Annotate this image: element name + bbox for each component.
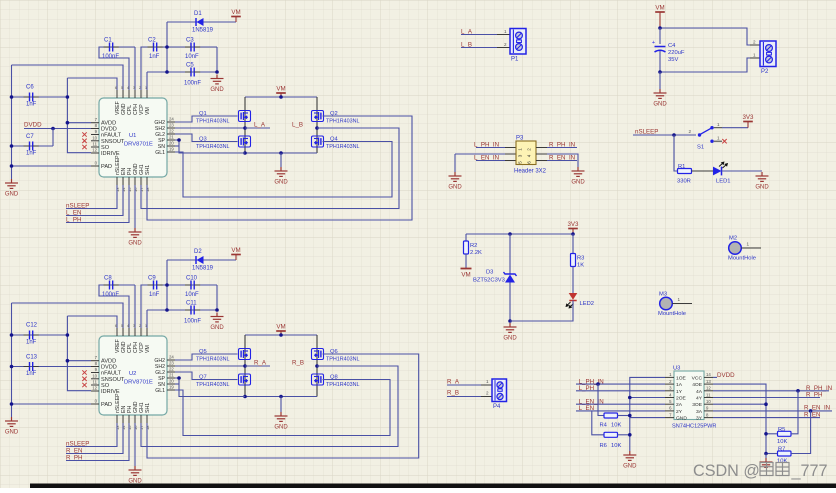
wire 3V3 to zener D3 — [509, 234, 511, 274]
power VM at diode — [235, 255, 237, 260]
ground left rail (U1 block) — [5, 179, 18, 188]
svg-text:2A: 2A — [676, 402, 683, 408]
wire U3 2OE to GND rail — [630, 397, 665, 399]
pin 13 4OE of U3 — [704, 383, 713, 385]
svg-text:22: 22 — [169, 129, 174, 134]
wire U3 3Y to R_EN — [713, 417, 820, 419]
pin VM top of U2 — [146, 328, 148, 336]
svg-text:VM: VM — [276, 86, 285, 93]
resistor R4 10K — [604, 413, 618, 418]
bottom black bar — [30, 484, 836, 489]
svg-text:nFAULT: nFAULT — [101, 371, 122, 377]
svg-text:100nF: 100nF — [102, 54, 119, 60]
wire L_EN pulldown to R6 — [592, 411, 604, 435]
power VM at H-bridge — [280, 94, 282, 98]
svg-text:R_B: R_B — [292, 360, 304, 367]
wire PAD pin — [12, 165, 92, 167]
net label L_A — [243, 126, 247, 130]
pin 22 GL2 of U2 — [167, 371, 175, 373]
svg-text:LED2: LED2 — [580, 301, 595, 307]
svg-text:R2: R2 — [470, 243, 477, 249]
wire U3 4Y to R_PH — [713, 397, 820, 399]
pin VREF top of U1 — [116, 90, 118, 98]
wire R_A to P4 pin 1 — [447, 384, 481, 386]
wire U3 4A to R_PH_IN — [713, 390, 829, 392]
svg-text:1nF: 1nF — [26, 102, 37, 108]
resistor R7 10K — [766, 453, 778, 455]
wire SP SN to bottom rail — [175, 140, 245, 153]
power VM below R2 — [461, 268, 472, 270]
pin 11 4Y of U3 — [704, 397, 713, 399]
svg-text:DVDD: DVDD — [24, 122, 42, 129]
svg-text:10: 10 — [92, 135, 97, 140]
pin 7 GND of U3 — [665, 417, 674, 419]
pin SH1 bottom of U2 — [146, 415, 148, 423]
wire left GND rail — [11, 303, 13, 417]
svg-text:TPH1R403NL: TPH1R403NL — [326, 357, 360, 363]
pin 20 SN of U2 — [167, 383, 175, 385]
wire VM to P2 pin 2 — [660, 28, 750, 45]
svg-text:13: 13 — [706, 379, 711, 384]
pin CPL top of U1 — [128, 90, 130, 98]
svg-text:1: 1 — [504, 29, 507, 34]
svg-text:3Y: 3Y — [696, 416, 703, 422]
svg-text:R_A: R_A — [254, 360, 267, 367]
svg-text:100nF: 100nF — [102, 292, 119, 298]
svg-text:TPH1R403NL: TPH1R403NL — [196, 382, 230, 388]
svg-text:12: 12 — [92, 148, 97, 153]
svg-text:Header 3X2: Header 3X2 — [514, 169, 547, 175]
wire nSLEEP — [66, 423, 117, 447]
connector P2 screw terminal — [760, 41, 776, 67]
pin GND bottom of U2 — [134, 415, 136, 423]
svg-text:1nF: 1nF — [26, 371, 37, 377]
svg-text:SH1: SH1 — [145, 165, 151, 175]
resistor R1 330R — [678, 169, 692, 174]
wire CPH riser — [134, 285, 136, 328]
pin 8 DVDD of U2 — [91, 366, 99, 368]
svg-text:TPH1R403NL: TPH1R403NL — [326, 382, 360, 388]
wire H-bridge right channel — [316, 97, 318, 153]
svg-text:4OE: 4OE — [692, 382, 703, 388]
svg-text:DRV8701E: DRV8701E — [124, 380, 153, 386]
svg-text:1: 1 — [717, 122, 720, 127]
svg-text:1nF: 1nF — [26, 340, 37, 346]
wire GL2 to Q3 gate — [175, 134, 238, 142]
ground C4 — [659, 72, 661, 89]
wire 3V3 rail to R2 — [466, 233, 573, 235]
LED LED1 — [713, 167, 722, 176]
svg-text:GL1: GL1 — [155, 150, 165, 156]
svg-text:C5: C5 — [186, 63, 194, 69]
svg-text:22: 22 — [169, 367, 174, 372]
ground P3 left — [449, 172, 462, 181]
pin 1 1OE of U3 — [665, 376, 674, 378]
svg-text:GND: GND — [503, 336, 517, 342]
wire P3 pin 4 to GND right — [536, 153, 547, 155]
power VM at diode — [235, 17, 237, 22]
wire L_PH_IN to U3 1A — [576, 383, 665, 385]
svg-text:3: 3 — [518, 154, 523, 157]
svg-text:BZT52C3V3: BZT52C3V3 — [473, 278, 505, 284]
svg-text:12: 12 — [706, 386, 711, 391]
transistor Q1 TPH1R403NL — [239, 111, 251, 122]
wire charge pump node — [166, 22, 168, 72]
wire nSLEEP — [66, 185, 117, 209]
svg-text:M2: M2 — [729, 236, 737, 242]
pin 19 GL1 of U1 — [167, 151, 175, 153]
svg-text:GND: GND — [676, 416, 687, 422]
svg-text:1: 1 — [518, 148, 523, 151]
ground left rail (U2 block) — [5, 417, 18, 426]
svg-text:C12: C12 — [26, 323, 38, 329]
capacitor C11 — [147, 309, 217, 311]
svg-text:1: 1 — [717, 136, 720, 141]
svg-text:10: 10 — [92, 373, 97, 378]
wire GL1 to Q4 gate — [175, 142, 392, 198]
svg-text:2: 2 — [527, 148, 532, 151]
ground H-bridge — [280, 397, 282, 413]
wire L_PH to U3 1Y — [576, 390, 665, 392]
wire L_PH — [66, 185, 129, 223]
wire L_A to P1 pin 1 — [461, 34, 497, 36]
ground LED1 — [756, 172, 769, 181]
wire GND node to P2 pin 1 — [660, 58, 750, 72]
wire H-bridge left channel — [244, 335, 246, 397]
wire AVDD vertical — [67, 316, 91, 391]
pin GH1 bottom of U2 — [140, 415, 142, 423]
wire VM pin riser — [146, 310, 148, 328]
svg-text:R5: R5 — [778, 427, 785, 433]
svg-text:P2: P2 — [761, 69, 769, 75]
no-ERC marks on U2 left pins — [82, 370, 86, 374]
svg-text:GL1: GL1 — [155, 388, 165, 394]
wire GL2 to Q7 gate — [175, 372, 238, 380]
pin 6 2Y of U3 — [665, 410, 674, 412]
no-ERC marks on U1 left pins — [82, 132, 86, 136]
svg-text:GND: GND — [5, 192, 19, 198]
svg-text:1nF: 1nF — [149, 292, 160, 298]
pin PH bottom of U1 — [128, 177, 130, 185]
capacitor C8 — [99, 285, 135, 328]
pin VCP top of U1 — [140, 90, 142, 98]
pin GND bottom of U1 — [134, 177, 136, 185]
svg-text:MountHole: MountHole — [658, 311, 686, 317]
svg-text:VM: VM — [145, 345, 151, 353]
svg-text:1nF: 1nF — [26, 151, 37, 157]
svg-text:1: 1 — [678, 297, 681, 302]
wire H-bridge right channel — [316, 335, 318, 397]
svg-text:D2: D2 — [194, 249, 202, 255]
wire L_EN — [66, 185, 123, 216]
svg-text:GND: GND — [571, 180, 585, 186]
svg-text:23: 23 — [169, 123, 174, 128]
svg-text:1N5819: 1N5819 — [192, 266, 214, 272]
diode D2 1N5819 — [167, 259, 236, 261]
pin SH1 bottom of U1 — [146, 177, 148, 185]
ground U3 rail — [623, 451, 636, 460]
pin CPH top of U2 — [134, 328, 136, 336]
pin 12 IDRIVE of U1 — [91, 152, 99, 154]
no-ERC mark on S1 throw — [722, 139, 726, 143]
svg-text:SN74HC125PWR: SN74HC125PWR — [672, 424, 716, 430]
svg-text:D1: D1 — [194, 11, 202, 17]
svg-text:TPH1R403NL: TPH1R403NL — [196, 144, 230, 150]
wire VM rail left corner (U1 block) — [12, 65, 124, 90]
svg-text:1N5819: 1N5819 — [192, 28, 214, 34]
svg-text:VM: VM — [655, 5, 664, 12]
svg-text:TPH1R403NL: TPH1R403NL — [196, 357, 230, 363]
capacitor C13 — [12, 366, 92, 368]
svg-text:C13: C13 — [26, 355, 38, 361]
resistor R2 2.2K — [465, 234, 467, 241]
wire R5 to R_PH_IN — [791, 391, 798, 434]
svg-text:P1: P1 — [511, 57, 519, 63]
svg-text:GND: GND — [210, 87, 224, 93]
svg-text:10nF: 10nF — [185, 54, 199, 60]
svg-text:21: 21 — [169, 373, 174, 378]
svg-text:C2: C2 — [148, 38, 156, 44]
wire R4 to GND rail — [618, 415, 630, 417]
wire C3 right corner — [216, 47, 218, 72]
pin 8 DVDD of U1 — [91, 128, 99, 130]
wire GH2 to Q1 gate — [175, 116, 238, 122]
wire left GND rail — [11, 65, 13, 179]
ground C11 node — [215, 308, 219, 312]
wire GH1 to node L_B — [141, 128, 399, 209]
capacitor C9 — [141, 285, 217, 328]
wire nSLEEP to R1 — [674, 135, 678, 171]
net label L_B — [315, 126, 319, 130]
power VM at C4 — [655, 11, 665, 13]
svg-text:3V3: 3V3 — [742, 114, 754, 121]
wire C3 right corner — [216, 285, 218, 310]
svg-text:11: 11 — [706, 392, 711, 397]
wire nSLEEP to S1 — [633, 134, 696, 136]
wire VM pin riser — [146, 72, 148, 90]
svg-text:CSDN @: CSDN @ — [693, 462, 760, 480]
wire GH2 to Q5 gate — [175, 354, 238, 360]
wire H-bridge top rail — [245, 334, 317, 336]
net label R_B — [315, 364, 319, 368]
transistor Q2 TPH1R403NL — [312, 111, 324, 122]
svg-text:LED1: LED1 — [716, 179, 731, 185]
svg-text:GND: GND — [274, 180, 288, 186]
pin nSLEEP bottom of U2 — [116, 415, 118, 423]
wire S1 throw 1 to 3V3 — [714, 127, 722, 129]
wire U3 3A to R_EN_IN — [713, 410, 832, 412]
wire VM rail left corner (U2 block) — [12, 303, 124, 328]
ground U1 GND pin — [134, 185, 136, 228]
pin 9 nFAULT of U1 — [91, 134, 99, 136]
svg-text:6: 6 — [527, 161, 532, 164]
wire R_B to P4 pin 2 — [447, 396, 481, 398]
svg-text:2.2K: 2.2K — [470, 250, 482, 256]
ground P3 right — [572, 167, 585, 176]
svg-text:10nF: 10nF — [185, 292, 199, 298]
watermark CSDN — [693, 462, 828, 480]
svg-text:TPH1R403NL: TPH1R403NL — [196, 119, 230, 125]
svg-text:GND: GND — [653, 102, 667, 108]
svg-text:2: 2 — [486, 391, 489, 396]
capacitor C5 — [147, 71, 217, 73]
svg-text:21: 21 — [169, 135, 174, 140]
wire LED2 to GND node — [510, 301, 573, 322]
pin 0 PAD of U1 — [91, 165, 99, 167]
svg-text:330R: 330R — [677, 179, 691, 185]
svg-text:MountHole: MountHole — [728, 256, 756, 262]
LED LED2 — [569, 293, 578, 300]
pin 4 2OE of U3 — [665, 397, 674, 399]
pin GH1 bottom of U1 — [140, 177, 142, 185]
diode D1 1N5819 — [167, 21, 236, 23]
pin 21 SP of U2 — [167, 377, 175, 379]
wire H-bridge bottom rail — [245, 396, 317, 398]
svg-text:4A: 4A — [696, 389, 703, 395]
svg-text:1nF: 1nF — [149, 54, 160, 60]
svg-text:GND: GND — [623, 464, 637, 470]
wire PAD pin — [12, 403, 92, 405]
svg-text:1: 1 — [753, 53, 756, 58]
capacitor C7 — [52, 129, 54, 147]
wire U3 1OE to GND rail — [630, 377, 665, 451]
svg-text:3A: 3A — [696, 409, 703, 415]
svg-text:C1: C1 — [104, 38, 112, 44]
svg-text:10K: 10K — [611, 423, 621, 429]
pin 24 GH2 of U1 — [167, 121, 175, 123]
pin 8 3Y of U3 — [704, 417, 713, 419]
svg-text:PAD: PAD — [101, 402, 112, 408]
transistor Q7 TPH1R403NL — [239, 374, 251, 385]
pin 20 SN of U1 — [167, 145, 175, 147]
svg-text:C9: C9 — [148, 276, 156, 282]
svg-text:PAD: PAD — [101, 164, 112, 170]
diode D3 BZT52C3V3 zener — [505, 275, 515, 283]
svg-text:P4: P4 — [493, 404, 501, 410]
wire SN pin — [175, 383, 179, 385]
pin CPH top of U1 — [134, 90, 136, 98]
svg-text:nFAULT: nFAULT — [101, 133, 122, 139]
pin 7 AVDD of U2 — [91, 360, 99, 362]
svg-text:D3: D3 — [486, 270, 493, 276]
svg-text:2OE: 2OE — [676, 396, 687, 402]
svg-text:R7: R7 — [778, 447, 785, 453]
pin 10 3OE of U3 — [704, 403, 713, 405]
pin nSLEEP bottom of U1 — [116, 177, 118, 185]
svg-text:SNSOUT: SNSOUT — [101, 139, 125, 145]
pin 22 GL2 of U1 — [167, 133, 175, 135]
wire R_PH — [66, 423, 129, 461]
wire U3 GND pin to rail — [630, 417, 665, 419]
svg-text:10K: 10K — [777, 439, 787, 445]
pin 19 GL1 of U2 — [167, 389, 175, 391]
svg-text:U3: U3 — [673, 366, 680, 372]
svg-text:VM: VM — [145, 107, 151, 115]
svg-text:20: 20 — [169, 141, 174, 146]
svg-text:L_A: L_A — [254, 122, 266, 129]
wire H-bridge left channel — [244, 97, 246, 153]
svg-text:R_B: R_B — [447, 390, 459, 397]
pin 10 SNSOUT of U2 — [91, 378, 99, 380]
capacitor C6 — [12, 96, 68, 98]
wire R_EN_IN from P3 pin 6 — [536, 160, 547, 162]
wire SP SN to bottom rail — [175, 378, 245, 397]
svg-text:10: 10 — [706, 399, 711, 404]
svg-text:U1: U1 — [129, 133, 136, 139]
pin VREF top of U2 — [116, 328, 118, 336]
wire R6 to GND rail — [618, 434, 630, 436]
header P3 Header 3X2 — [516, 141, 536, 165]
svg-text:C6: C6 — [26, 85, 34, 91]
svg-text:VCC: VCC — [692, 375, 703, 381]
svg-text:1: 1 — [486, 379, 489, 384]
ground zener block — [504, 323, 517, 332]
pin 11 SO of U2 — [91, 384, 99, 386]
svg-text:GND: GND — [5, 430, 19, 436]
svg-text:24: 24 — [169, 117, 174, 122]
wire D3 to GND node — [509, 283, 511, 322]
pin 9 3A of U3 — [704, 410, 713, 412]
wire L_EN to U3 2Y — [576, 410, 665, 412]
wire R3 to LED2 — [572, 267, 574, 294]
wire L_EN_IN to P3 pin 5 — [476, 160, 505, 162]
svg-text:4: 4 — [527, 154, 532, 157]
transistor Q3 TPH1R403NL — [239, 136, 251, 147]
wire GH1 to node R_B — [141, 366, 398, 447]
wire R7 to R_EN_IN — [791, 411, 811, 454]
svg-text:4Y: 4Y — [696, 396, 703, 402]
svg-text:L_B: L_B — [292, 122, 303, 129]
capacitor C1 — [99, 47, 135, 90]
svg-text:C7: C7 — [26, 134, 34, 140]
wire SH2 to node L_A — [175, 127, 245, 129]
svg-text:1OE: 1OE — [676, 375, 687, 381]
capacitor C10 — [191, 281, 194, 290]
svg-text:20: 20 — [169, 379, 174, 384]
pin 11 SO of U1 — [91, 146, 99, 148]
pin EN bottom of U2 — [122, 415, 124, 423]
connector P1 screw terminal — [510, 29, 526, 55]
pin 2 1A of U3 — [665, 383, 674, 385]
ground U3 OE rail — [765, 454, 767, 459]
svg-text:R3: R3 — [577, 256, 584, 262]
svg-text:10K: 10K — [611, 443, 621, 449]
svg-text:3OE: 3OE — [692, 402, 703, 408]
buffer U3 SN74HC125PWR — [674, 371, 704, 420]
capacitor C3 — [191, 43, 194, 52]
wire R2 to VM — [465, 254, 467, 268]
svg-text:GND: GND — [128, 241, 142, 247]
capacitor C2 — [141, 47, 217, 90]
transistor Q6 TPH1R403NL — [312, 349, 324, 360]
pin EN bottom of U1 — [122, 177, 124, 185]
pin 0 PAD of U2 — [91, 403, 99, 405]
ground H-bridge — [280, 153, 282, 167]
svg-text:24: 24 — [169, 355, 174, 360]
svg-text:3V3: 3V3 — [567, 221, 579, 228]
wire SN pin — [175, 145, 179, 147]
power 3V3 at zener block — [568, 228, 578, 230]
svg-text:1: 1 — [747, 242, 750, 247]
pin 10 SNSOUT of U1 — [91, 140, 99, 142]
svg-text:2: 2 — [688, 129, 691, 134]
pin 9 nFAULT of U2 — [91, 372, 99, 374]
pin GND top of U2 — [122, 328, 124, 336]
pin 23 SH2 of U2 — [167, 365, 175, 367]
pin 12 IDRIVE of U2 — [91, 390, 99, 392]
svg-text:S1: S1 — [697, 145, 704, 151]
net label R_A — [243, 364, 247, 368]
